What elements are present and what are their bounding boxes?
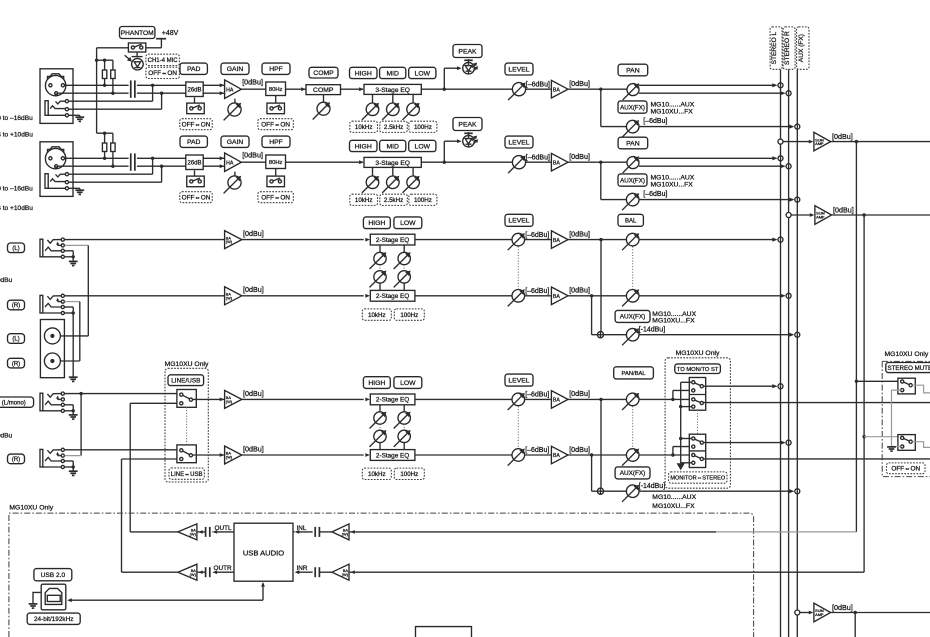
XLR pin 2 CH3/4	[49, 157, 52, 160]
resistor phantom feed cold CH1/2	[111, 70, 115, 79]
label 100Hz CH1/2	[409, 121, 437, 132]
op-amp USB OUTL	[178, 524, 197, 540]
svg-text:MG10XU...FX: MG10XU...FX	[652, 317, 695, 324]
svg-text:AMP: AMP	[816, 215, 825, 220]
wire AUX tap L CH5/6	[600, 240, 602, 332]
svg-text:MG10XU Only: MG10XU Only	[165, 361, 209, 368]
label LOW CH1/2	[409, 67, 436, 78]
capacitor INR	[314, 567, 316, 577]
label MID CH1/2	[380, 67, 406, 78]
node stereo L bus junction CH1/2	[778, 83, 783, 88]
PAD attenuator 26dB CH3/4	[186, 155, 203, 170]
label MONITOR-STEREO	[669, 472, 727, 483]
svg-text:4 to +10dBu: 4 to +10dBu	[0, 205, 33, 212]
wire CH5/6 R jack to common ground	[72, 313, 74, 377]
equalizer 2-Stage EQ R CH7/8	[370, 450, 415, 461]
label STEREO MUTE	[886, 363, 930, 373]
region MG10XU Only LINE/USB	[165, 368, 208, 482]
label HPF CH1/2	[262, 63, 290, 74]
svg-text:PAD: PAD	[187, 66, 201, 73]
switch PAD CH1/2	[187, 103, 205, 114]
knob EQ band 3 CH1/2	[412, 94, 414, 103]
wire CH7/8 L tip	[65, 393, 177, 395]
jack phone L CH7/8	[40, 393, 43, 411]
knob BAL L CH5/6	[626, 233, 639, 246]
svg-text:OFF⇔ON: OFF⇔ON	[261, 122, 290, 129]
svg-text:COMP: COMP	[313, 70, 334, 77]
wire rec feed L vertical	[855, 142, 857, 532]
ground TRS sleeve CH3/4	[75, 189, 84, 191]
wire BAL R to bus CH5/6	[639, 295, 784, 297]
node sum AUX tap	[795, 610, 800, 615]
power +48V terminal	[156, 38, 166, 40]
wire mute R out	[912, 442, 930, 448]
label (R) CH5/6	[8, 300, 25, 310]
label OFF-ON phantom	[146, 67, 180, 78]
svg-text:HIGH: HIGH	[368, 220, 385, 227]
svg-text:PEAK: PEAK	[458, 48, 477, 55]
svg-text:80Hz: 80Hz	[269, 160, 283, 166]
svg-text:(L): (L)	[12, 246, 19, 252]
wire AUX branch CH3/4	[600, 162, 602, 199]
node switch R tap	[671, 453, 674, 456]
svg-text:USB 2.0: USB 2.0	[41, 572, 66, 579]
svg-text:AUX(FX): AUX(FX)	[620, 177, 645, 184]
wire PAN out R CH3/4	[639, 165, 784, 167]
TRS jack CH1/2	[45, 101, 48, 116]
wire L-mono normalling	[80, 394, 82, 456]
svg-text:3-Stage EQ: 3-Stage EQ	[375, 87, 409, 94]
XLR pin 3 CH1/2	[61, 84, 64, 87]
op-amp BA L CH5/6	[551, 231, 568, 249]
gang link EQ CH7/8	[403, 424, 405, 430]
ground CH5/6 L jack	[72, 257, 74, 261]
knob LEVEL L CH7/8	[512, 393, 525, 406]
knob PAN/BAL R CH7/8	[626, 449, 639, 462]
svg-text:OFF⇔ON: OFF⇔ON	[261, 195, 290, 202]
svg-text:(R): (R)	[12, 457, 20, 463]
node sum L tap	[778, 139, 783, 144]
op-amp HA head amp CH1/2	[225, 80, 242, 99]
wire OUTL	[214, 531, 234, 533]
ground arrow TO MON	[677, 463, 685, 470]
label PAN CH1/2	[618, 64, 648, 76]
knob EQ band 2 CH1/2	[392, 94, 394, 103]
label OFF-ON PAD CH1/2	[180, 119, 212, 130]
knob EQ lower x380 CH5/6	[374, 271, 386, 283]
knob EQ upper x404.2 CH5/6	[403, 245, 405, 252]
svg-text:LOW: LOW	[400, 380, 416, 387]
label 10kHz CH3/4	[350, 194, 378, 205]
wire TRS tip normal riser CH3/4	[67, 173, 153, 175]
label CH1-4 MIC	[146, 54, 180, 65]
svg-text:[0dBu]: [0dBu]	[243, 285, 264, 294]
wire PAN/BAL R into switch	[639, 454, 693, 456]
svg-text:3-Stage EQ: 3-Stage EQ	[375, 160, 409, 167]
svg-text:COMP: COMP	[313, 87, 334, 94]
label AUX(FX) CH7/8	[615, 467, 650, 479]
node stereo R bus junction CH1/2	[786, 91, 791, 96]
ground CH7/8 R jack	[72, 467, 74, 471]
op-amp input BA R CH5/6	[225, 287, 242, 305]
node ST R junction CH5/6	[786, 293, 791, 298]
label (R) CH7/8	[8, 454, 25, 464]
label LOW CH3/4	[409, 140, 436, 151]
XLR pin 3 CH3/4	[61, 157, 64, 160]
wire OUTR cap to amp	[197, 571, 206, 573]
svg-text:OFF⇔ON: OFF⇔ON	[148, 70, 177, 77]
svg-text:[-14dBu]: [-14dBu]	[639, 326, 666, 333]
svg-text:[0dBu]: [0dBu]	[569, 152, 590, 161]
equalizer 2-Stage EQ L CH5/6	[370, 234, 415, 245]
svg-text:LEVEL: LEVEL	[508, 218, 529, 225]
arrow into EQ CH1/2	[359, 87, 364, 91]
svg-text:100Hz: 100Hz	[414, 197, 432, 204]
knob LEVEL CH1/2	[512, 83, 525, 96]
label TO MON/TO ST	[675, 364, 721, 374]
svg-text:GAIN: GAIN	[227, 66, 244, 73]
svg-text:BA: BA	[553, 398, 560, 404]
svg-text:PHANTOM: PHANTOM	[121, 30, 154, 37]
wire R to BAL CH5/6	[568, 295, 626, 297]
arrow into COMP CH1/2	[301, 87, 306, 91]
label GAIN CH1/2	[221, 63, 249, 74]
svg-text:[0dBu]: [0dBu]	[832, 132, 853, 141]
svg-text:[0dBu]: [0dBu]	[569, 445, 590, 454]
knob EQ lower x404.2 CH5/6	[398, 271, 410, 283]
op-amp BA L CH7/8	[551, 391, 568, 409]
svg-text:HIGH: HIGH	[355, 70, 372, 77]
node AUX tap CH3/4	[599, 161, 602, 164]
arrow into HA CH1/2	[220, 83, 225, 87]
capacitor OUTL	[205, 527, 207, 537]
node ST L junction USB	[778, 384, 783, 389]
ground STEREO MUTE	[887, 446, 896, 448]
jack phone R CH5/6	[40, 295, 43, 313]
wire USB OUTR riser	[121, 459, 123, 572]
label LEVEL CH1/2	[505, 63, 533, 75]
ground CH5/6 R jack and RCA	[69, 376, 78, 378]
svg-text:(W): (W)	[190, 532, 197, 537]
label USB 2.0	[34, 569, 72, 581]
TRS jack CH3/4	[45, 174, 48, 189]
wire AUX CH7/8	[604, 490, 627, 492]
label LEVEL CH5/6	[505, 214, 533, 226]
connector USB-B	[41, 584, 66, 610]
wire rec L to mute switch	[855, 380, 858, 383]
svg-text:MID: MID	[386, 143, 399, 150]
knob BAL R CH5/6	[626, 290, 639, 303]
label LINE-USB	[169, 468, 204, 479]
capacitor input coupling CH1/2	[130, 80, 132, 97]
knob EQ band 1 CH1/2	[372, 94, 374, 103]
jack phone L CH5/6	[40, 239, 43, 257]
svg-text:(W): (W)	[226, 239, 233, 244]
svg-text:(W): (W)	[226, 455, 233, 460]
svg-text:0 to –16dBu: 0 to –16dBu	[0, 186, 33, 193]
svg-text:INR: INR	[297, 565, 308, 572]
knob PAN CH1/2	[627, 84, 639, 96]
node AUX tap CH1/2	[599, 88, 602, 91]
gang link EQ CH5/6	[403, 265, 405, 271]
label 2.5kHz CH1/2	[380, 121, 408, 132]
svg-text:AUX(FX): AUX(FX)	[620, 470, 646, 477]
wire MON assign L out	[704, 402, 930, 404]
op-amp USB INR	[332, 564, 349, 580]
svg-text:LEVEL: LEVEL	[508, 378, 529, 385]
svg-text:26dB: 26dB	[187, 160, 201, 166]
label HIGH CH3/4	[350, 140, 378, 151]
label AUX(FX) CH3/4	[618, 174, 647, 186]
svg-text:BA: BA	[553, 453, 560, 459]
node ST R junction USB	[786, 440, 791, 445]
op-amp sum R	[815, 206, 832, 225]
label HIGH CH1/2	[350, 67, 378, 78]
node AUX tap R CH7/8	[590, 453, 593, 456]
resistor phantom feed cold CH3/4	[111, 143, 115, 152]
svg-text:[–6dBu]: [–6dBu]	[526, 81, 550, 88]
knob LEVEL L CH5/6	[512, 233, 525, 246]
node rec tap R	[862, 213, 865, 216]
wire INL into box	[296, 531, 313, 533]
LED peak indicator CH3/4	[463, 135, 475, 147]
wire ST assign R out	[704, 442, 785, 444]
ground TRS sleeve CH1/2	[75, 116, 84, 118]
svg-text:LEVEL: LEVEL	[508, 66, 529, 73]
svg-text:AUX(FX): AUX(FX)	[620, 104, 645, 111]
equalizer 2-Stage EQ R CH5/6	[370, 290, 415, 301]
knob EQ upper x404.2 CH7/8	[403, 405, 405, 412]
svg-text:100Hz: 100Hz	[400, 312, 418, 319]
wire phantom switch to +48V	[146, 47, 162, 49]
knob COMP CH1/2	[317, 102, 330, 115]
op-amp input BA R CH7/8	[225, 446, 242, 464]
label PEAK CH3/4	[453, 118, 482, 131]
label 2.5kHz CH3/4	[380, 194, 408, 205]
label GAIN CH3/4	[221, 136, 249, 147]
wire rec R to mute switch	[862, 435, 865, 438]
label LEVEL CH3/4	[505, 136, 533, 148]
svg-text:24-bit/192kHz: 24-bit/192kHz	[34, 616, 73, 623]
svg-text:MG10XU...FX: MG10XU...FX	[651, 109, 694, 116]
svg-text:LINE/USB: LINE/USB	[171, 378, 200, 385]
wire AUX branch CH1/2	[600, 89, 602, 126]
switch HPF CH1/2	[267, 103, 285, 114]
wire AUX tap R CH5/6	[591, 296, 593, 335]
wire mute L out	[912, 385, 930, 393]
svg-text:+48V: +48V	[162, 30, 179, 37]
wire OUTR to riser	[122, 571, 178, 573]
combo connector XLR/TRS CH3/4	[40, 142, 73, 197]
svg-text:100Hz: 100Hz	[400, 471, 418, 478]
label 10kHz CH7/8	[362, 468, 391, 479]
svg-text:MG10......AUX: MG10......AUX	[651, 102, 695, 109]
svg-text:CH1-4 MIC: CH1-4 MIC	[148, 58, 179, 64]
wire cold line CH1/2	[58, 92, 128, 94]
capacitor INL	[314, 527, 316, 537]
switch PAD CH3/4	[187, 176, 205, 187]
knob EQ lower x380 CH7/8	[374, 430, 386, 442]
wire EQ to level R CH5/6	[415, 295, 551, 297]
op-amp input BA L CH7/8	[225, 390, 242, 408]
block USB AUDIO	[234, 523, 293, 581]
knob EQ upper x380 CH7/8	[379, 405, 381, 412]
knob EQ band 2 CH3/4	[392, 167, 394, 176]
svg-text:TO MON/TO ST: TO MON/TO ST	[677, 367, 719, 373]
XLR pin 1 CH3/4	[55, 165, 58, 168]
op-amp input BA L CH5/6	[225, 231, 242, 249]
svg-text:LOW: LOW	[400, 220, 416, 227]
knob AUX CH1/2	[626, 120, 639, 133]
wire phantom rail feed CH1/2	[97, 59, 113, 61]
svg-text:0dBu: 0dBu	[0, 277, 13, 284]
svg-text:(W): (W)	[226, 399, 233, 404]
svg-text:LOW: LOW	[415, 70, 431, 77]
svg-text:10kHz: 10kHz	[368, 471, 386, 478]
region MG10XU Only STEREO MUTE	[882, 361, 930, 476]
switch STEREO MUTE R	[898, 435, 915, 451]
svg-text:[0dBu]: [0dBu]	[243, 229, 264, 238]
svg-text:(W): (W)	[342, 532, 349, 537]
svg-text:MG10......AUX: MG10......AUX	[651, 175, 695, 182]
svg-text:BA: BA	[553, 294, 560, 300]
resistor phantom feed hot CH1/2	[102, 70, 106, 79]
label 100Hz CH7/8	[394, 468, 424, 479]
wire PAN/BAL L into switch	[639, 398, 693, 400]
svg-text:BA: BA	[553, 238, 560, 244]
node ST L junction CH5/6	[778, 237, 783, 242]
wire EQ to level R CH7/8	[415, 454, 551, 456]
knob PAN/BAL L CH7/8	[626, 393, 639, 406]
node rec tap L	[855, 140, 858, 143]
wire PAN out L CH1/2	[639, 84, 776, 86]
op-amp HA head amp CH3/4	[225, 153, 242, 172]
svg-text:AMP: AMP	[815, 612, 824, 617]
wire CH7/8 R tip	[65, 449, 177, 451]
svg-text:4 to +10dBu: 4 to +10dBu	[0, 132, 33, 139]
node AUX tap L CH7/8	[599, 398, 602, 401]
wire RCA L normalling	[65, 244, 89, 246]
arrow into HA CH3/4	[220, 156, 225, 160]
label (L) CH5/6	[8, 243, 25, 253]
svg-text:[0dBu]: [0dBu]	[833, 206, 854, 215]
wire switch R to BA	[193, 454, 225, 456]
svg-text:[–6dBu]: [–6dBu]	[525, 232, 549, 239]
svg-text:LINE⇔USB: LINE⇔USB	[171, 472, 203, 478]
op-amp BA R CH7/8	[551, 446, 568, 464]
svg-text:HIGH: HIGH	[355, 143, 372, 150]
label PAN/BAL CH7/8	[614, 367, 654, 379]
knob AUX CH5/6	[626, 328, 639, 341]
wire PAN out R CH1/2	[639, 92, 784, 94]
LED phantom indicator	[136, 52, 138, 57]
svg-text:MG10XU Only: MG10XU Only	[9, 505, 53, 512]
label (L) RCA	[8, 334, 25, 344]
knob EQ lower x404.2 CH7/8	[398, 430, 410, 442]
label PAD CH1/2	[180, 63, 207, 74]
wire OUTL to riser	[130, 531, 178, 533]
switch LINE/USB R CH7/8	[177, 445, 196, 463]
svg-text:MONITOR⇔STEREO: MONITOR⇔STEREO	[670, 476, 726, 482]
svg-text:STEREO R: STEREO R	[784, 31, 791, 65]
svg-text:INL: INL	[297, 525, 307, 532]
svg-text:OFF⇔ON: OFF⇔ON	[182, 195, 211, 202]
wire hot line CH1/2	[65, 84, 129, 86]
label PAD CH3/4	[180, 136, 207, 147]
wire ST assign L out	[704, 385, 777, 387]
knob AUX CH7/8	[626, 485, 639, 498]
wire CH5/6 L signal	[65, 239, 225, 241]
label PHANTOM	[120, 27, 155, 39]
wire sleeve to ground CH1/2	[48, 114, 80, 116]
svg-text:(W): (W)	[226, 295, 233, 300]
svg-text:[0dBu]: [0dBu]	[243, 389, 264, 398]
svg-text:PAN: PAN	[626, 140, 640, 147]
gang link EQ CH5/6	[379, 265, 381, 271]
wire AUX to sum amp	[797, 612, 809, 614]
svg-text:0 to –16dBu: 0 to –16dBu	[0, 115, 33, 122]
knob EQ upper x380 CH5/6	[379, 245, 381, 252]
svg-text:(R): (R)	[12, 303, 20, 309]
svg-text:LEVEL: LEVEL	[508, 139, 529, 146]
LED peak indicator CH1/2	[463, 62, 475, 74]
knob LEVEL R CH5/6	[512, 290, 525, 303]
wire peak tap CH1/2	[443, 68, 445, 89]
label 100Hz CH3/4	[409, 194, 437, 205]
equalizer 3-Stage EQ CH3/4	[364, 157, 421, 167]
bus STEREO R	[788, 69, 790, 637]
label LINE/USB	[168, 375, 204, 386]
equalizer 2-Stage EQ L CH7/8	[370, 394, 415, 405]
knob GAIN CH3/4	[234, 172, 236, 177]
arrow into EQ L CH5/6	[365, 238, 370, 242]
gang link LEVEL CH7/8	[517, 406, 519, 448]
svg-text:MID: MID	[386, 70, 399, 77]
label LOW CH5/6	[394, 217, 422, 229]
op-amp sum AUX	[814, 603, 831, 622]
wire EQ to level L CH5/6	[415, 239, 551, 241]
node AUX bus junction CH7/8	[795, 489, 800, 494]
svg-text:26dB: 26dB	[187, 87, 201, 93]
label 24-bit/192kHz	[27, 613, 80, 624]
svg-text:[0dBu]: [0dBu]	[569, 389, 590, 398]
wire INR into box	[296, 571, 313, 573]
label HIGH CH5/6	[363, 217, 390, 229]
wire phantom rail	[97, 47, 129, 49]
label LEVEL CH7/8	[505, 374, 533, 386]
ground CH7/8 L jack	[72, 411, 74, 415]
op-amp sum L	[814, 132, 831, 151]
svg-text:[-14dBu]: [-14dBu]	[639, 483, 666, 490]
wire CH5/6 R signal	[65, 295, 225, 297]
HPF 80Hz CH3/4	[266, 155, 286, 169]
svg-text:[0dBu]: [0dBu]	[569, 286, 590, 295]
wire TRS tip normal riser CH1/2	[67, 100, 153, 102]
wire EQ to level L CH7/8	[415, 398, 551, 400]
label PEAK CH1/2	[453, 45, 482, 58]
switch TO MON/TO ST lower block	[689, 434, 705, 467]
ground USB	[29, 603, 38, 605]
wire INL feed	[349, 531, 716, 533]
gang link LEVEL CH5/6	[517, 247, 519, 289]
wire L to BAL CH5/6	[568, 239, 626, 241]
knob PAN CH3/4	[627, 157, 639, 169]
wire main line CH3/4	[241, 161, 363, 163]
wire R to BAL CH7/8	[568, 454, 626, 456]
label HPF CH3/4	[262, 136, 290, 147]
svg-text:LOW: LOW	[415, 143, 431, 150]
switch TO MON/TO ST upper block	[689, 378, 705, 411]
